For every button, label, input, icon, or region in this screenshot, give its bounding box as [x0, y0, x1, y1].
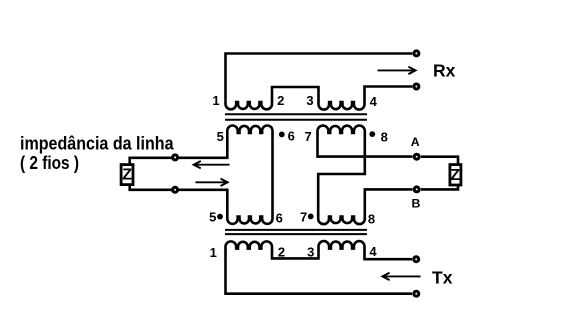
svg-text:8: 8 — [381, 129, 388, 144]
wire: T2 pin8 to node B — [365, 189, 413, 216]
wire: T1 pin4 to Rx bottom terminal — [365, 87, 413, 102]
arrow right (from line) — [195, 179, 227, 186]
svg-text:B: B — [412, 196, 421, 210]
wire: node B to right Z box — [421, 186, 458, 189]
terminal circle left bottom — [173, 187, 178, 192]
phase dot T2 pin5 — [217, 214, 223, 220]
svg-text:Z: Z — [450, 167, 460, 184]
terminal Tx top — [414, 257, 419, 262]
impedance box Z (left) — [121, 165, 133, 185]
wire: T1 pin1 up and Rx top line — [226, 54, 413, 101]
svg-text:6: 6 — [288, 129, 295, 144]
svg-text:4: 4 — [369, 244, 377, 259]
svg-text:Rx: Rx — [433, 60, 456, 80]
svg-text:2: 2 — [277, 93, 284, 108]
arrow left (towards line) — [194, 161, 230, 168]
svg-text:( 2 fios ): ( 2 fios ) — [20, 152, 79, 173]
winding T2 secondary 5-6 — [227, 215, 272, 224]
wire: T2 pin1 down to Tx bottom terminal — [226, 249, 413, 293]
svg-text:1: 1 — [212, 93, 219, 108]
wire: T1 pin6 down to T2 pin6 — [271, 134, 274, 216]
svg-text:1: 1 — [210, 245, 217, 260]
svg-text:impedância da linha: impedância da linha — [20, 132, 174, 153]
core T2 (double lines) — [225, 230, 367, 234]
wire: left line bottom (Z to T2 pin5) — [130, 185, 228, 216]
winding T1 secondary 5-6 — [227, 125, 272, 134]
svg-text:5: 5 — [217, 129, 224, 144]
wire: T2 pin4 to Tx top terminal — [365, 249, 413, 259]
winding T2 secondary 7-8 — [318, 215, 365, 224]
winding T1 primary 3-4 — [319, 101, 365, 110]
svg-text:8: 8 — [368, 212, 375, 227]
wire: left line top (Z to T1 pin5) — [130, 134, 228, 164]
terminal node B — [414, 187, 419, 192]
wire: T1 link pins 2-3 — [272, 87, 319, 102]
terminal circle left top — [173, 155, 178, 160]
wire: T2 link pins 2-3 — [272, 249, 319, 258]
terminal node A — [414, 154, 419, 159]
terminal Tx bottom — [414, 291, 419, 296]
core T1 (double lines) — [225, 114, 367, 119]
svg-text:A: A — [411, 135, 420, 149]
svg-text:3: 3 — [306, 93, 313, 108]
wire: T1 pin8 jog down to T2 pin7 — [318, 134, 365, 216]
svg-text:7: 7 — [304, 129, 311, 144]
svg-text:5: 5 — [209, 209, 216, 224]
winding T1 secondary 7-8 — [318, 126, 365, 135]
winding T2 primary 1-2 — [226, 241, 273, 250]
terminal Rx bottom — [414, 84, 419, 89]
svg-text:Tx: Tx — [432, 267, 453, 287]
phase dot pin8 — [369, 131, 375, 137]
phase dot T2 pin7 — [308, 214, 314, 220]
phase dot pin6 — [279, 132, 285, 138]
terminal Rx top — [414, 51, 419, 56]
svg-text:4: 4 — [370, 94, 378, 109]
svg-text:6: 6 — [276, 211, 283, 226]
impedance box Z (right) — [450, 165, 461, 185]
wire: node A to right Z box — [421, 157, 458, 164]
svg-text:Z: Z — [122, 166, 132, 183]
arrow Rx — [378, 67, 416, 74]
wire: T1 pin7 to node A — [318, 134, 413, 157]
winding T1 primary 1-2 — [226, 101, 273, 110]
arrow Tx — [382, 273, 420, 280]
svg-text:7: 7 — [300, 210, 307, 225]
winding T2 primary 3-4 — [319, 241, 365, 250]
